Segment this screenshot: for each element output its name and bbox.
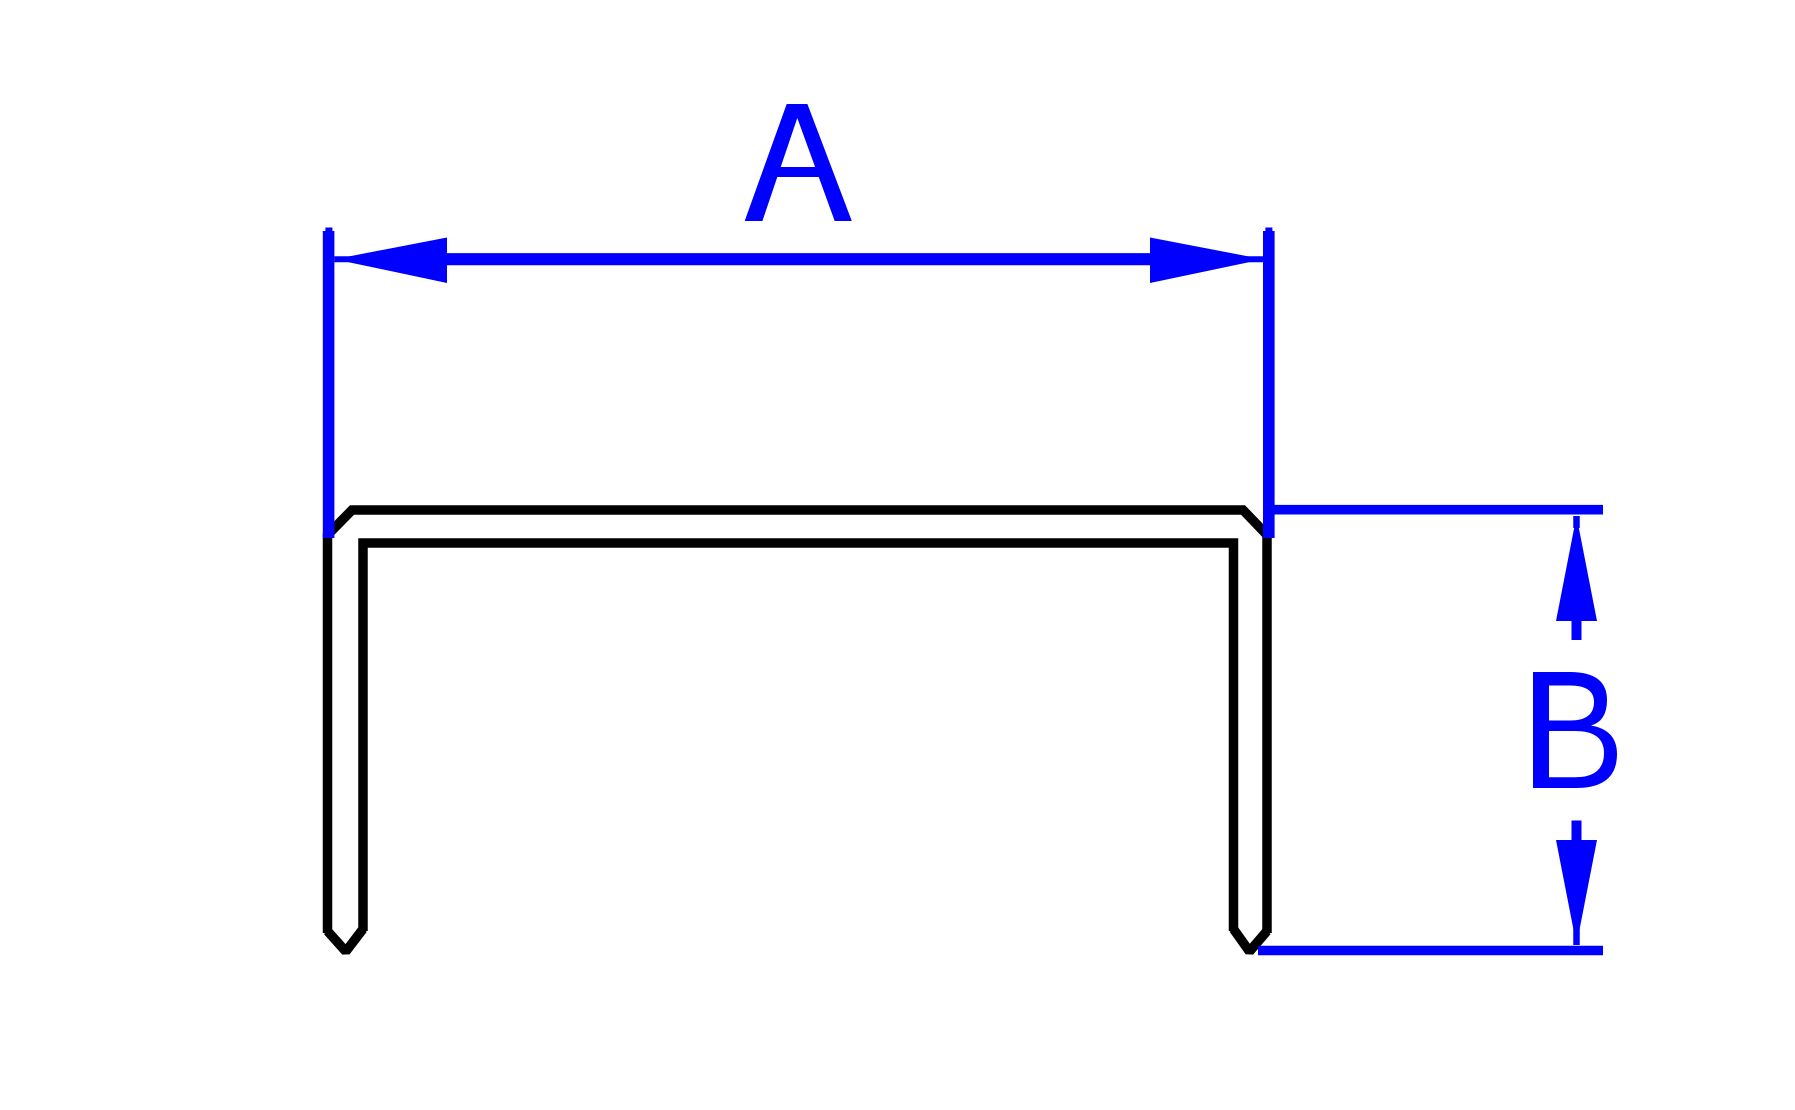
staple outer outline [328,510,1268,933]
leader line top right [1263,505,1603,515]
extension line right [1263,231,1275,538]
dimension line A [443,253,1155,265]
staple inner outline [363,543,1234,931]
extension line left [323,231,335,538]
staple left leg tip [328,929,364,952]
leader line bottom right [1258,946,1603,956]
arrowhead A right tail [1240,256,1263,262]
extension line right top nub [1265,228,1272,233]
label A [745,104,852,221]
arrowhead A right [1150,238,1263,284]
arrowhead B down [1556,840,1597,945]
arrowhead B up tail [1573,516,1580,528]
dimension tail B up [1572,618,1582,640]
extension line left top nub [325,228,332,233]
staple right leg tip [1234,929,1268,952]
dimension tail B down [1572,821,1582,844]
arrowhead A left tail [335,256,359,262]
arrowhead B down tail [1573,920,1580,945]
label B [1533,672,1617,788]
arrowhead A left [335,238,448,284]
arrowhead B up [1556,516,1597,621]
